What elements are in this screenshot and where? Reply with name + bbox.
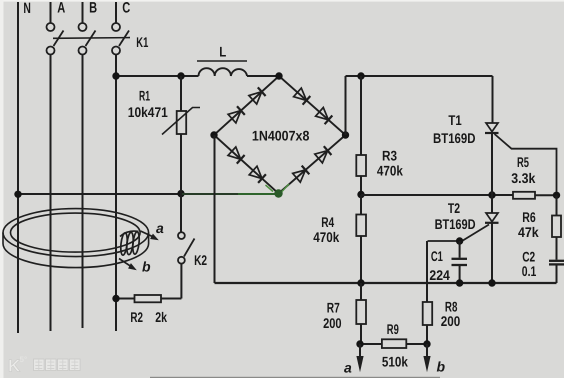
- switch K1 pole 1 bottom contact: [47, 47, 55, 55]
- node junction mid rail left: [357, 191, 364, 198]
- wire R1 top: [180, 76, 182, 111]
- svg-text:224: 224: [429, 267, 450, 283]
- wire T1 cathode: [491, 133, 493, 195]
- wire mid rail: [361, 194, 513, 196]
- diode D6 (left-bottom side): [249, 166, 262, 178]
- svg-text:A: A: [57, 0, 65, 17]
- node junction C-line top: [112, 72, 119, 79]
- wire top rail down to T1: [492, 76, 494, 123]
- diode D8 (bottom-right side): [315, 151, 328, 163]
- wire bridge right corner up: [345, 76, 347, 135]
- wire bottom rail: [215, 282, 557, 284]
- svg-text:47k: 47k: [518, 224, 539, 240]
- switch K2 lever: [184, 239, 195, 257]
- node junction R1/K2 branch: [177, 190, 184, 197]
- node junction C line R2: [112, 295, 119, 302]
- wire R1 bottom: [180, 134, 182, 194]
- switch K1 mechanical link: [53, 37, 130, 40]
- svg-text:B: B: [89, 0, 97, 17]
- switch K1 pole 3 lever: [119, 31, 129, 47]
- resistor R5: [513, 192, 535, 199]
- wire below K1 pole 1: [50, 55, 52, 332]
- wire R7 top: [360, 283, 362, 300]
- label L underline: [197, 60, 247, 62]
- wire T2 gate: [428, 225, 490, 242]
- svg-text:5°: 5°: [20, 355, 28, 364]
- svg-text:R1: R1: [139, 88, 150, 104]
- node junction bottom rail C1: [456, 279, 463, 286]
- wire R9 right: [406, 343, 427, 345]
- wire line A upper: [50, 2, 52, 23]
- svg-text:K2: K2: [194, 252, 207, 268]
- svg-text:2k: 2k: [155, 309, 167, 325]
- switch K2 bottom contact: [178, 257, 185, 264]
- node bridge top corner: [275, 72, 282, 79]
- svg-text:C: C: [122, 0, 130, 17]
- winding loops: [120, 231, 140, 255]
- diode D2 (left-top side): [249, 92, 262, 104]
- svg-text:L: L: [219, 44, 226, 60]
- svg-text:a: a: [156, 220, 164, 236]
- wire gate line down to R8: [426, 241, 428, 302]
- node bridge bottom corner (green): [274, 189, 282, 197]
- diode D1 (left-top side): [228, 111, 241, 123]
- wire T2 cathode: [491, 223, 493, 283]
- resistor R8: [423, 302, 433, 325]
- capacitor C2: [549, 260, 564, 262]
- node junction bottom rail R4: [357, 279, 364, 286]
- svg-text:R2: R2: [130, 309, 143, 325]
- node junction T1 cathode: [488, 191, 495, 198]
- node junction gate C1: [456, 237, 463, 244]
- wire line N: [17, 2, 19, 333]
- svg-text:a: a: [344, 360, 352, 376]
- edge highlight top-left: [0, 0, 564, 2]
- svg-text:T1: T1: [448, 112, 461, 128]
- node junction R1 branch top: [177, 72, 184, 79]
- resistor R7: [356, 300, 366, 324]
- node bridge right corner: [342, 131, 349, 138]
- thyristor T1: [486, 123, 498, 132]
- svg-text:b: b: [142, 259, 151, 275]
- svg-text:1N4007x8: 1N4007x8: [252, 128, 310, 144]
- winding lead b arrow: [119, 259, 130, 266]
- wire line B upper: [82, 2, 84, 23]
- wire top from C to R1 branch: [116, 75, 199, 77]
- node bridge left corner: [210, 131, 217, 138]
- svg-text:T2: T2: [448, 200, 460, 216]
- svg-text:470k: 470k: [313, 229, 339, 245]
- wire R3 bottom: [360, 176, 362, 195]
- svg-text:3.3k: 3.3k: [511, 170, 535, 186]
- resistor R2: [135, 295, 162, 302]
- resistor R6: [552, 216, 561, 238]
- wire C1 top: [459, 241, 461, 258]
- wire N to R1 branch (neutral return): [18, 193, 181, 195]
- switch K1 pole 3 top contact: [112, 23, 120, 31]
- switch K1 pole 1 top contact: [47, 23, 55, 31]
- diode D7 (bottom-right side): [293, 170, 306, 182]
- switch K2 top contact: [178, 232, 185, 239]
- wire R8 bottom: [426, 325, 428, 344]
- svg-text:BT169D: BT169D: [435, 216, 476, 232]
- bridge frame: [214, 76, 346, 194]
- svg-text:470k: 470k: [377, 163, 403, 179]
- wire R4 top: [360, 195, 362, 215]
- svg-text:200: 200: [323, 315, 342, 331]
- capacitor C1: [452, 258, 468, 260]
- wire K2 to R2: [161, 298, 181, 300]
- wire C1 bottom: [459, 266, 461, 283]
- resistor R3: [356, 155, 366, 176]
- toroid outer bottom: [3, 233, 149, 268]
- wire T2 anode: [491, 195, 493, 213]
- diode D4 (top-right side): [316, 108, 329, 120]
- watermark: [8, 355, 80, 376]
- wire L to bridge top: [247, 75, 279, 77]
- wire R9 left: [360, 343, 382, 345]
- toroid inner: [11, 213, 141, 252]
- thyristor T2: [486, 213, 498, 222]
- wire top rail: [346, 75, 493, 77]
- output arrow b: [426, 344, 428, 357]
- switch K1 pole 3 bottom contact: [112, 47, 120, 55]
- svg-text:0.1: 0.1: [522, 263, 537, 279]
- svg-text:K1: K1: [136, 34, 148, 50]
- svg-text:C1: C1: [431, 248, 443, 264]
- output arrow a: [359, 344, 361, 357]
- wire K2 top: [180, 194, 182, 232]
- winding lead a arrow: [141, 231, 153, 236]
- svg-text:R6: R6: [522, 209, 536, 225]
- toroid outer top: [3, 209, 149, 257]
- wire R7 bottom: [360, 324, 362, 344]
- resistor R4: [356, 215, 366, 237]
- varistor R1: [177, 111, 187, 134]
- node junction bottom rail T2: [488, 279, 495, 286]
- diode D5 (left-bottom side): [228, 147, 241, 159]
- wire below K1 pole 3: [115, 55, 117, 332]
- svg-text:R9: R9: [387, 321, 399, 337]
- node junction output b: [423, 340, 430, 347]
- wire R4 bottom: [360, 236, 362, 283]
- node junction gate rail right: [553, 192, 560, 199]
- wire T1 gate: [495, 134, 557, 192]
- svg-text:510k: 510k: [382, 354, 408, 370]
- wire below K1 pole 2: [82, 55, 84, 329]
- switch K1 pole 1 lever: [54, 31, 64, 47]
- inductor L: [199, 68, 248, 76]
- wire R6 to C2: [556, 237, 558, 260]
- node junction top rail R3: [357, 72, 364, 79]
- wire R6 top: [556, 195, 558, 215]
- wire R2 to C line: [116, 298, 135, 300]
- switch K1 pole 2 lever: [86, 31, 96, 47]
- wire R5 right: [535, 194, 557, 196]
- svg-text:10k471: 10k471: [128, 104, 168, 120]
- wire C2 bottom: [556, 266, 558, 284]
- wire green to bridge bottom: [181, 193, 238, 195]
- switch K1 pole 2 bottom contact: [79, 47, 87, 55]
- wire K2 bottom: [180, 264, 182, 299]
- switch K1 pole 2 top contact: [79, 23, 87, 31]
- resistor R9: [382, 339, 406, 348]
- node junction output a: [356, 340, 363, 347]
- svg-text:BT169D: BT169D: [433, 130, 476, 146]
- svg-text:R7: R7: [327, 300, 340, 316]
- svg-text:200: 200: [441, 313, 461, 329]
- svg-text:N: N: [23, 0, 31, 17]
- wire bridge left corner down: [214, 135, 216, 283]
- svg-text:R5: R5: [517, 154, 529, 170]
- diode D3 (top-right side): [294, 88, 307, 100]
- svg-text:R4: R4: [321, 214, 334, 230]
- wire line C upper: [115, 2, 117, 23]
- svg-text:R3: R3: [382, 147, 397, 163]
- wire R3 top: [360, 76, 362, 155]
- node junction on N line: [14, 191, 21, 198]
- svg-text:b: b: [437, 359, 446, 375]
